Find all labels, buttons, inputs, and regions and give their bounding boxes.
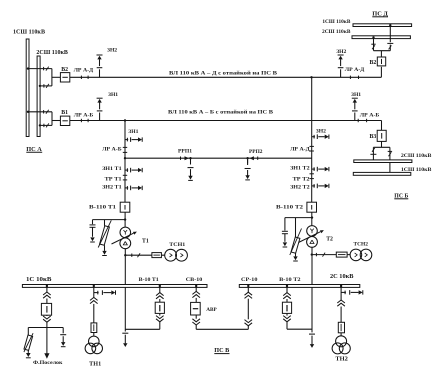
node tap junction to PS V (line A-B) [124, 119, 126, 121]
disconnector blade feeder2 upper tap [46, 110, 49, 114]
busbar 1SSh 110kV PS D [353, 24, 412, 27]
disconnector tick feeder1 lower tap [43, 84, 45, 87]
wire leg1 lower PS D [389, 45, 391, 51]
svg-text:ЗН2: ЗН2 [316, 128, 326, 134]
wire section link SV-10 to SR-10 [196, 328, 248, 330]
capacitor drop T1 branch [92, 220, 94, 225]
disconnector LR A-D ticks (PS A side) [80, 76, 82, 79]
drawout contact F.Poselok top [43, 292, 51, 295]
wire TN2 a [340, 288, 342, 301]
disconnector LR A-D ticks (right column) [310, 145, 314, 147]
wire RRP row line [125, 157, 312, 159]
wire T1 below bus [124, 288, 126, 332]
busbar 1SSh 110kV PS B [353, 172, 411, 175]
drawout contact SR-10 top [245, 292, 253, 295]
earthing switch ZN1 (line A-B right) [354, 113, 356, 121]
disconnector RRP2 arrow [250, 156, 254, 160]
svg-text:ЛР А-Д: ЛР А-Д [290, 146, 310, 152]
breaker V2 PS D [377, 57, 385, 66]
disconnector blade feeder2 lower tap [46, 123, 49, 127]
svg-text:ЛР А-Д: ЛР А-Д [345, 67, 365, 73]
breaker SV-10 with AVR [191, 302, 201, 315]
surge arrester T1 [104, 220, 106, 226]
transformer T1 regulation arrow [112, 233, 134, 244]
svg-text:ТР Т1: ТР Т1 [105, 176, 122, 182]
transformer T1 HV winding [120, 227, 131, 238]
earthing arrow arrester F.Poselok [27, 350, 29, 353]
disconnector LR A-B ticks (PS B side) [357, 119, 359, 122]
svg-text:ЗН2 Т1: ЗН2 Т1 [102, 184, 122, 190]
disconnector dash leg1 PS D [387, 42, 393, 44]
disconnector tick feeder2 upper tap [43, 110, 45, 113]
wire TSN2 branch [312, 254, 351, 256]
fuse TN1 [91, 323, 97, 333]
wire tap bus1 to feeder2 [28, 111, 52, 113]
svg-text:ЗН2: ЗН2 [336, 49, 346, 55]
wire feeder1 riser to breaker V2 PS D [380, 67, 382, 78]
earthing arrow arrester T1 [104, 245, 106, 251]
svg-text:ТР Т2: ТР Т2 [293, 176, 310, 182]
fuse TN2 [338, 322, 344, 333]
breaker V3 [377, 130, 386, 141]
wire T2 below bus [311, 288, 313, 333]
disconnector RRP1 tick [180, 157, 182, 160]
svg-text:ЗН1 Т2: ЗН1 Т2 [290, 166, 310, 172]
svg-text:1СШ 110кВ: 1СШ 110кВ [322, 19, 350, 25]
busbar 1SSh 110kV PS A [26, 39, 29, 137]
transformer T2 delta symbol [310, 240, 314, 243]
earthing knife F.Poselok cell [62, 328, 64, 334]
wire TN1 a [93, 288, 95, 298]
wire T1 surge branch [93, 219, 126, 221]
busbar 2S 10kV [239, 285, 359, 288]
transformer TSN1 winding 2 [176, 249, 188, 261]
capacitor drop T2 branch [284, 218, 286, 231]
drawout contact F.Poselok bottom [43, 319, 51, 322]
disconnector RRP2 tick [257, 157, 259, 160]
wire V-10 T2 to T2 line [287, 328, 312, 330]
breaker V-110 T1 [120, 202, 130, 212]
wire leg to bus 1SSh PS B [389, 147, 391, 172]
breaker V-10 T2 [282, 302, 291, 313]
svg-text:2СШ 110кВ: 2СШ 110кВ [322, 29, 351, 35]
voltage transformer TN2 w2 [332, 343, 343, 354]
earthing switch ZN1 (left column) [125, 139, 128, 141]
svg-text:РРП2: РРП2 [249, 149, 263, 155]
svg-text:СВ-10: СВ-10 [186, 277, 203, 283]
wire feeder2 riser to breaker V3 [381, 121, 383, 131]
svg-text:ЗН1 Т1: ЗН1 Т1 [102, 166, 122, 172]
disconnector blade leg2 PS D [372, 45, 375, 49]
transformer TSN1 winding 1 [165, 249, 177, 261]
wire F.Poselok a [46, 288, 48, 293]
disconnector blade leg1 PS D [389, 45, 392, 49]
transformer T2 LV winding [307, 237, 318, 248]
node SR-10 bus junction [247, 285, 249, 287]
wire F.Poselok branch bar [28, 327, 63, 329]
svg-text:РРП1: РРП1 [178, 149, 192, 155]
node SV-10 bus junction [195, 285, 197, 287]
node V-10 T2 bus junction [286, 285, 288, 287]
transformer TSN2 winding 2 [360, 249, 372, 261]
transformer TSN2 winding 1 [350, 249, 362, 261]
svg-text:ЗН2: ЗН2 [107, 47, 117, 53]
surge arrester F.Poselok [27, 328, 29, 336]
wire SV-10 a [195, 288, 197, 292]
node TN2 bus junction [340, 285, 342, 287]
disconnector ticks TSN2 branch [315, 253, 317, 256]
disconnector blade leg2 PS B [389, 152, 392, 156]
node F.Poselok bus junction [46, 285, 48, 287]
wire tap bus2 to feeder1 [40, 85, 52, 87]
wire tap bus2 to feeder2 [40, 124, 52, 126]
svg-text:ЛР А-Б: ЛР А-Б [360, 113, 380, 119]
svg-text:В2: В2 [370, 60, 377, 66]
wire collector bar PS B [373, 146, 390, 148]
earthing switch ZN1 T2 [312, 168, 315, 170]
wire V-10 T1 to T1 line [125, 328, 160, 330]
node V-10 T1 bus junction [159, 285, 161, 287]
wire V-110 T1 to transformer T1 [124, 212, 126, 227]
svg-text:ЛР А-Б: ЛР А-Б [74, 112, 94, 118]
svg-text:ВЛ 110 кВ А – Д с отпайкой на: ВЛ 110 кВ А – Д с отпайкой на ПС В [169, 69, 277, 76]
drawout contact V-10 T1 bottom [156, 319, 164, 322]
svg-text:ЗН1: ЗН1 [128, 129, 138, 135]
node tap junction to PS V (line A-D) [310, 76, 312, 78]
earthing knife T1 cell [122, 332, 128, 334]
wire F.Poselok b [46, 314, 48, 317]
wire below breaker V3 [381, 141, 383, 147]
wire feeder1 to breaker V2 [52, 76, 61, 78]
svg-text:АВР: АВР [206, 307, 217, 313]
disconnector tick leg2 PS B [388, 150, 392, 152]
node RRP1 junction [189, 157, 191, 159]
svg-text:Т2: Т2 [326, 236, 333, 242]
wire V-110 T2 to transformer T2 [311, 212, 313, 226]
svg-text:1С 10кВ: 1С 10кВ [26, 277, 52, 283]
drawout contact V-10 T1 top [156, 293, 164, 296]
wire SR-10 b [247, 326, 249, 330]
busbar 2SSh 110kV PS B [354, 160, 412, 163]
wire TN1 b [93, 333, 95, 337]
disconnector blade feeder1 upper tap [46, 67, 49, 71]
bus2 earthing knife [341, 291, 346, 293]
wire vertical jumper feeder2 [51, 112, 53, 126]
drawout contact TN1 [90, 297, 98, 300]
earthing switch ZN2 T2 [312, 185, 315, 187]
svg-text:ЛР А-Д: ЛР А-Д [74, 67, 94, 73]
node T2 LV junction [311, 253, 313, 255]
busbar 1S 10kV [22, 285, 207, 288]
svg-text:ТСН2: ТСН2 [354, 241, 369, 247]
drawout contact SR-10 bottom [245, 323, 253, 326]
node RRP2 junction [246, 157, 248, 159]
svg-text:ТН1: ТН1 [89, 362, 101, 368]
wire V-10 T1 b [159, 313, 161, 315]
disconnector blade feeder1 lower tap [46, 84, 49, 88]
disconnector TR T2 ticks [310, 173, 314, 175]
voltage transformer TN2 w3 [339, 343, 350, 354]
wire feeder2 to breaker V1 [52, 120, 60, 122]
voltage transformer TN1 w2 [85, 343, 96, 354]
disconnector LR A-B ticks (left column) [123, 146, 127, 148]
svg-text:ЗН2 Т2: ЗН2 Т2 [290, 184, 310, 190]
transformer T2 HV winding [307, 226, 318, 237]
svg-text:ЗН1: ЗН1 [351, 92, 361, 98]
wire T2 to junction [311, 247, 313, 284]
earthing knife RRP1 down [190, 158, 192, 164]
busbar 2SSh 110kV PS D [352, 36, 410, 39]
breaker V1 [60, 116, 69, 125]
svg-text:ЗН1: ЗН1 [108, 92, 118, 98]
wire V-10 T2 b [286, 313, 288, 315]
svg-text:В3: В3 [370, 134, 377, 140]
wire line VL 110kV A-B [70, 120, 382, 122]
earthing arrow arrester T2 [295, 253, 297, 257]
earthing switch ZN1 T1 [125, 169, 128, 171]
svg-text:В-110 Т2: В-110 Т2 [276, 205, 303, 211]
drawout contact V-10 T2 top [283, 293, 291, 296]
svg-text:1СШ 110кВ: 1СШ 110кВ [13, 30, 45, 36]
drawout contact SV-10 bottom [192, 322, 200, 325]
bus1 earthing knife [94, 292, 99, 294]
disconnector TR T1 ticks [123, 174, 127, 176]
wire right tap column upper [311, 77, 313, 202]
drawout contact V-10 T2 bottom [283, 319, 291, 322]
wire SV-10 b [195, 315, 197, 319]
svg-text:ТН2: ТН2 [335, 356, 348, 362]
earthing switch ZN2 (line A-D left) [99, 69, 101, 77]
earthing switch ZN2 T1 [125, 187, 128, 189]
wire TN2 b [340, 333, 342, 336]
earthing switch ZN2 (right column) [312, 136, 315, 138]
voltage transformer TN1 w3 [92, 343, 103, 354]
svg-text:Ф.Поселок: Ф.Поселок [33, 360, 63, 366]
wire vertical jumper feeder1 [51, 69, 53, 86]
disconnector ticks TSN1 branch [131, 254, 133, 257]
svg-text:ЛР А-Б: ЛР А-Б [102, 146, 122, 152]
breaker F.Poselok cell [41, 303, 51, 315]
disconnector LR A-B ticks (PS A side) [80, 119, 82, 122]
wire leg from bus2 PS D [373, 39, 375, 51]
breaker V-110 T2 [307, 202, 317, 212]
feeder arrow F.Poselok [46, 328, 48, 354]
breaker V-10 T1 [155, 302, 164, 313]
wire T2 surge branch [285, 217, 312, 219]
wire leg from bus1 PS D [389, 27, 391, 43]
earthing switch ZN2 (line A-D right) [340, 69, 342, 77]
svg-text:Т1: Т1 [142, 239, 149, 245]
svg-text:В1: В1 [61, 110, 68, 116]
wire line VL 110kV A-D [70, 76, 382, 78]
surge arrester T2 [295, 218, 297, 238]
wire V-10 T2 a [286, 288, 288, 293]
transformer T1 LV winding [120, 238, 131, 249]
transformer T2 regulation arrow [299, 232, 321, 243]
drawout contact SV-10 top [192, 291, 200, 294]
wire T1 to junction [124, 249, 126, 285]
node T1 LV junction [124, 254, 126, 256]
wire left tap column upper [124, 121, 126, 203]
wire TSN1 branch [125, 254, 164, 256]
busbar 2SSh 110kV PS A [37, 56, 40, 137]
node TN1 bus junction [93, 285, 95, 287]
earthing arrow capacitor T1 [90, 237, 94, 241]
voltage transformer TN1 w1 [89, 336, 100, 347]
svg-text:В-10 Т2: В-10 Т2 [279, 277, 301, 283]
earthing arrow capacitor T2 [283, 242, 287, 246]
svg-text:ВЛ 110 кВ А – Б с отпайкой на: ВЛ 110 кВ А – Б с отпайкой на ПС В [168, 108, 273, 115]
disconnector RRP1 arrow [185, 156, 189, 160]
breaker V2 [60, 73, 69, 82]
disconnector tick feeder1 upper tap [43, 67, 45, 70]
svg-text:2С 10кВ: 2С 10кВ [330, 274, 354, 280]
earthing knife RRP2 down [247, 158, 249, 165]
fuse TSN1 [152, 253, 162, 258]
svg-text:ТСН1: ТСН1 [169, 242, 185, 248]
voltage transformer TN2 w1 [336, 336, 347, 347]
wire leg to bus 2SSh PS B [372, 147, 374, 160]
disconnector blade leg1 PS B [372, 148, 375, 152]
svg-text:2СШ 110кВ: 2СШ 110кВ [401, 153, 432, 159]
wire breaker V2 PS D drop [380, 51, 382, 57]
svg-text:В-110 Т1: В-110 Т1 [89, 205, 116, 211]
drawout contact TN2 [337, 300, 345, 303]
svg-text:2СШ 110кВ: 2СШ 110кВ [36, 50, 68, 56]
transformer T1 delta symbol [123, 242, 127, 245]
wire SR-10 a [247, 288, 249, 293]
disconnector tick feeder2 lower tap [43, 124, 45, 127]
fuse TSN2 [336, 252, 347, 257]
disconnector LR A-D ticks (PS D side) [349, 76, 351, 79]
wire tap bus1 to feeder1 [28, 68, 52, 70]
earthing switch ZN1 (line A-B left) [99, 113, 101, 121]
svg-text:ПС А: ПС А [26, 146, 42, 153]
svg-text:СР-10: СР-10 [241, 277, 258, 283]
disconnector dash leg1 PS B [370, 153, 376, 155]
wire V-10 T1 a [159, 288, 161, 293]
disconnector tick leg2 PS D [371, 43, 375, 45]
earthing knife T2 cell [309, 333, 315, 335]
wire collector bar PS D [374, 50, 391, 52]
svg-text:В-10 Т1: В-10 Т1 [139, 277, 159, 283]
